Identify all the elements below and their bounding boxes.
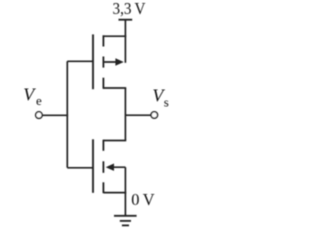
- terminal output circle Vs: [151, 112, 158, 119]
- transistor NMOS channel (dashed enhancement bar): [102, 140, 104, 193]
- svg-text:3,3 V: 3,3 V: [113, 0, 147, 18]
- transistor PMOS body line with arrow pointing right: [103, 58, 123, 65]
- transistor PMOS channel (dashed enhancement bar): [102, 35, 104, 89]
- transistor PMOS gate bar: [92, 34, 94, 89]
- wire input bus (gate bus vertical): [66, 61, 68, 168]
- svg-text:s: s: [164, 94, 169, 109]
- wire output Vs: [125, 114, 151, 116]
- wire supply vertical (VDD to PMOS source/body): [124, 20, 126, 63]
- transistor NMOS body line with arrow pointing left: [106, 164, 126, 171]
- power rail 3,3V tick: [119, 19, 133, 21]
- wire NMOS gate: [67, 167, 93, 169]
- wire output bus (PMOS drain to NMOS drain): [124, 88, 126, 141]
- transistor PMOS drain stub: [103, 87, 126, 89]
- transistor PMOS source stub: [103, 35, 126, 37]
- svg-text:0 V: 0 V: [131, 190, 155, 209]
- transistor NMOS gate bar: [92, 139, 94, 193]
- supply label 3,3 V: [113, 0, 147, 18]
- label Vs: [152, 86, 168, 110]
- transistor NMOS drain stub: [103, 140, 126, 142]
- svg-text:V: V: [23, 85, 36, 105]
- terminal input circle Ve: [36, 112, 43, 119]
- label 0 V: [131, 190, 155, 209]
- svg-text:e: e: [36, 93, 42, 108]
- wire NMOS body to source: [124, 167, 126, 192]
- label Ve: [23, 85, 42, 108]
- wire input Ve: [42, 114, 68, 116]
- ground symbol: [114, 216, 137, 226]
- transistor NMOS source stub: [103, 192, 126, 194]
- wire NMOS source to ground: [124, 193, 126, 216]
- wire PMOS gate: [67, 60, 93, 62]
